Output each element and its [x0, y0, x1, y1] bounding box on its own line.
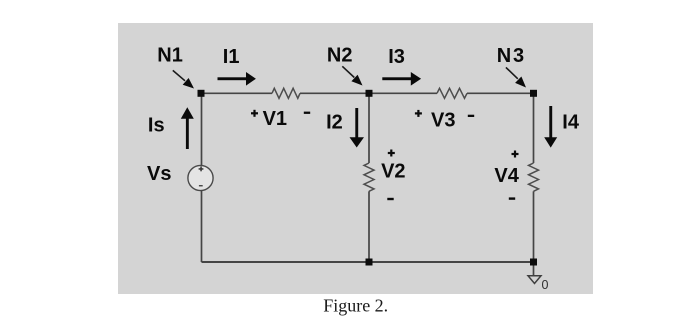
current arrow I3 — [382, 77, 411, 80]
resistor V4 (vertical zigzag) — [529, 163, 539, 191]
svg-text:Figure 2.: Figure 2. — [323, 295, 388, 315]
polarity minus of V3 — [468, 115, 474, 117]
polarity minus of V2 — [387, 198, 393, 200]
ground triangle — [528, 276, 541, 284]
current arrow I2 (downward) — [355, 108, 358, 138]
node N1 (junction square) — [198, 90, 205, 97]
ground stem — [533, 266, 535, 276]
Vs internal plus — [199, 168, 204, 170]
svg-text:Vs: Vs — [147, 163, 171, 185]
polarity minus of V1 — [304, 112, 310, 114]
svg-text:I4: I4 — [562, 111, 580, 133]
current arrow I1 — [218, 77, 247, 80]
wire: middle branch upper (N2 down) — [368, 93, 370, 163]
svg-text:I3: I3 — [388, 46, 405, 68]
wire: left branch upper (N1 to Vs) — [201, 93, 203, 165]
polarity plus of V2 — [388, 152, 395, 154]
node pointer arrow N1 — [173, 70, 185, 80]
polarity plus of V1 — [251, 112, 258, 114]
svg-text:N3: N3 — [497, 45, 526, 67]
gray schematic panel — [118, 23, 593, 294]
node bottom middle (junction square) — [366, 259, 373, 266]
polarity plus of V4 — [512, 153, 519, 155]
wire: V1 to N2 — [300, 92, 369, 94]
svg-text:Is: Is — [148, 114, 165, 136]
node pointer arrow N2 — [342, 66, 354, 77]
svg-text:V1: V1 — [263, 108, 287, 130]
wire: bottom rail — [202, 261, 534, 263]
svg-text:I1: I1 — [223, 46, 240, 68]
current arrow Is (upward) — [186, 118, 189, 150]
polarity minus of V4 — [509, 197, 515, 199]
node N3 (junction square) — [530, 90, 537, 97]
wire: N2 to V3 — [369, 92, 437, 94]
svg-text:N2: N2 — [327, 44, 353, 66]
node N2 (junction square) — [366, 90, 373, 97]
svg-text:0: 0 — [542, 278, 549, 292]
svg-text:V4: V4 — [494, 165, 519, 187]
wire: right branch lower — [533, 191, 535, 262]
current arrow I4 (downward) — [549, 106, 552, 138]
resistor V2 (vertical zigzag) — [364, 163, 374, 191]
voltage source Vs (circle) — [188, 165, 213, 190]
Vs internal minus — [199, 185, 203, 186]
svg-text:V2: V2 — [381, 161, 405, 183]
svg-text:V3: V3 — [431, 110, 455, 132]
resistor V1 (horizontal zigzag) — [272, 88, 300, 98]
wire: right branch upper (N3 down) — [533, 93, 535, 163]
wire: top rail N1 to V1 — [201, 92, 272, 94]
node pointer arrow N3 — [506, 67, 518, 78]
wire: middle branch lower — [368, 191, 370, 262]
polarity plus of V3 — [415, 112, 422, 114]
node bottom right (junction square) — [530, 259, 537, 266]
svg-text:I2: I2 — [326, 111, 343, 133]
resistor V3 (horizontal zigzag) — [437, 88, 467, 98]
svg-text:N1: N1 — [157, 44, 183, 66]
wire: left branch lower (Vs to bottom rail) — [201, 191, 203, 262]
wire: V3 to N3 — [467, 92, 534, 94]
